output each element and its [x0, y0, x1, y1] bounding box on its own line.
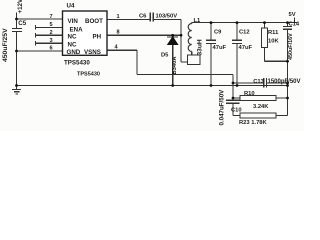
- svg-text:5: 5: [50, 22, 53, 28]
- svg-text:GND: GND: [67, 49, 81, 56]
- wire pin3 stub: [36, 42, 63, 44]
- capacitor C13: [233, 82, 264, 84]
- IC U4 TPS5430 body: [63, 11, 108, 55]
- svg-text:+12V: +12V: [17, 0, 24, 14]
- ground symbol: [16, 86, 18, 90]
- wire C6 down to PH: [180, 20, 182, 63]
- svg-text:C10: C10: [231, 107, 242, 113]
- wire GND column right: [287, 83, 289, 116]
- svg-text:3: 3: [50, 38, 53, 44]
- svg-text:R23 1.78K: R23 1.78K: [239, 120, 268, 126]
- wire pin8 PH: [107, 34, 181, 36]
- wire inductor bottom link: [181, 61, 188, 63]
- svg-text:C6: C6: [139, 14, 147, 20]
- svg-text:5V: 5V: [289, 12, 296, 18]
- svg-text:3.24K: 3.24K: [253, 104, 269, 110]
- wire pin5 stub: [36, 26, 63, 28]
- wire inductor top stub: [191, 22, 193, 25]
- svg-text:VIN: VIN: [68, 18, 79, 25]
- wire top rail to pin7: [17, 18, 63, 20]
- capacitor C9: [210, 23, 212, 41]
- wire pin2 stub: [36, 34, 63, 36]
- wire pin6 GND: [17, 50, 63, 52]
- wire C6 to corner: [153, 19, 181, 21]
- svg-text:C12: C12: [239, 30, 250, 36]
- svg-text:2: 2: [50, 30, 53, 36]
- capacitor C6: [149, 13, 151, 22]
- capacitor C14: [287, 23, 289, 27]
- svg-text:C9: C9: [214, 30, 222, 36]
- svg-text:47uF: 47uF: [239, 45, 253, 51]
- svg-text:TPS5430: TPS5430: [77, 72, 100, 78]
- capacitor C10: [226, 99, 240, 101]
- svg-text:C5: C5: [18, 20, 26, 27]
- svg-text:33uH: 33uH: [197, 39, 204, 55]
- svg-text:NC: NC: [68, 42, 77, 49]
- svg-text:8: 8: [117, 30, 120, 36]
- diode D5: [167, 36, 178, 38]
- svg-text:U4: U4: [67, 2, 75, 9]
- svg-text:1: 1: [117, 14, 120, 20]
- svg-text:R10: R10: [244, 91, 255, 97]
- svg-text:PH: PH: [93, 34, 102, 41]
- svg-text:C13: C13: [253, 79, 264, 85]
- svg-text:TPS5430: TPS5430: [64, 59, 90, 66]
- svg-text:L1: L1: [194, 18, 202, 24]
- svg-text:103/50V: 103/50V: [156, 14, 178, 20]
- capacitor C5: [16, 19, 18, 29]
- svg-text:450uF/16V: 450uF/16V: [288, 33, 294, 60]
- svg-text:0.047uF/50V: 0.047uF/50V: [219, 89, 226, 126]
- svg-text:10K: 10K: [268, 39, 279, 45]
- svg-text:C14: C14: [289, 21, 300, 27]
- svg-text:ENA: ENA: [70, 26, 84, 33]
- wire VSNS pin4: [107, 49, 137, 51]
- text labels: [2, 0, 103, 66]
- wire R11 bottom to right column: [265, 60, 288, 62]
- resistor R10: [233, 97, 240, 99]
- diode D5 body: [168, 37, 178, 45]
- svg-text:1500pF/50V: 1500pF/50V: [268, 79, 301, 85]
- ground rail: [17, 85, 288, 87]
- svg-text:450uF/25V: 450uF/25V: [2, 28, 9, 62]
- svg-text:B340A: B340A: [172, 56, 178, 75]
- svg-text:NC: NC: [68, 34, 77, 41]
- inductor L1 coil: [188, 24, 191, 52]
- output rail 5V: [192, 22, 297, 24]
- wire FB column: [232, 75, 234, 101]
- resistor R23: [233, 115, 240, 117]
- svg-text:R11: R11: [268, 30, 279, 36]
- node junction dots: [15, 18, 289, 100]
- svg-text:VSNS: VSNS: [84, 49, 101, 56]
- svg-text:6: 6: [50, 46, 53, 52]
- svg-text:47uF: 47uF: [213, 45, 227, 51]
- svg-text:BOOT: BOOT: [85, 18, 103, 25]
- capacitor C12: [236, 23, 238, 41]
- node +12V stub: [16, 13, 18, 20]
- wire C5 bottom to ground rail: [16, 32, 18, 86]
- wire pin1 BOOT: [107, 19, 150, 21]
- resistor R11: [264, 23, 266, 28]
- svg-text:D5: D5: [161, 52, 169, 58]
- wire FB line: [137, 74, 233, 76]
- svg-text:7: 7: [50, 14, 53, 20]
